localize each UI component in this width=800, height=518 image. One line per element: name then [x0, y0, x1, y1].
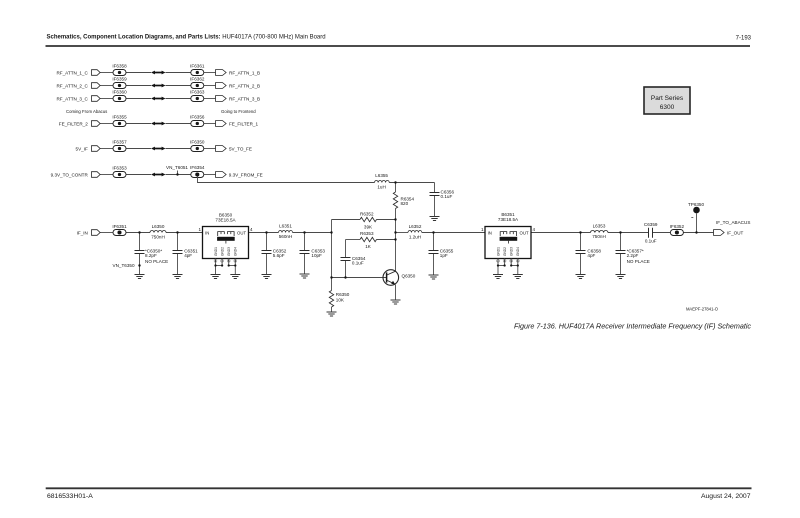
svg-text:Figure 7-136. HUF4017A Receive: Figure 7-136. HUF4017A Receiver Intermed…	[514, 322, 751, 331]
svg-text:MAEPF-27841-O: MAEPF-27841-O	[686, 307, 719, 312]
svg-text:IF6354: IF6354	[190, 165, 205, 170]
svg-text:TP6350: TP6350	[688, 202, 705, 207]
svg-text:1.2uH: 1.2uH	[409, 234, 421, 239]
svg-text:IF6363: IF6363	[190, 90, 205, 95]
svg-text:2.2pF: 2.2pF	[627, 253, 639, 258]
svg-text:L6353: L6353	[593, 224, 606, 229]
svg-text:0.1uF: 0.1uF	[645, 238, 657, 243]
svg-text:73E18.5A: 73E18.5A	[498, 217, 519, 222]
svg-text:RF_ATTN_2_C: RF_ATTN_2_C	[56, 83, 88, 88]
svg-text:0.1uF: 0.1uF	[441, 194, 453, 199]
svg-text:RF_ATTN_2_B: RF_ATTN_2_B	[229, 83, 260, 88]
svg-text:RF_ATTN_1_C: RF_ATTN_1_C	[56, 70, 88, 75]
svg-text:560nH: 560nH	[279, 234, 293, 239]
svg-text:IF6350: IF6350	[190, 140, 205, 145]
svg-text:8.2pF: 8.2pF	[145, 253, 157, 258]
svg-text:6816533H01-A: 6816533H01-A	[47, 493, 93, 500]
svg-text:10K: 10K	[336, 298, 345, 303]
svg-text:1K: 1K	[365, 244, 372, 249]
svg-text:IF6356: IF6356	[190, 115, 205, 120]
svg-text:Q6350: Q6350	[402, 274, 416, 279]
svg-text:Going to Frontend: Going to Frontend	[221, 109, 256, 114]
svg-text:IF6360: IF6360	[112, 90, 127, 95]
svg-text:VN_T6350: VN_T6350	[113, 263, 135, 268]
svg-text:RF_ATTN_3_C: RF_ATTN_3_C	[56, 96, 88, 101]
svg-text:IF_OUT: IF_OUT	[727, 231, 744, 236]
svg-text:R6352: R6352	[360, 211, 374, 216]
svg-text:Schematics, Component Location: Schematics, Component Location Diagrams,…	[47, 34, 326, 40]
svg-text:1pF: 1pF	[440, 253, 448, 258]
svg-text:0.1uF: 0.1uF	[352, 261, 364, 266]
svg-text:IF6359: IF6359	[112, 77, 127, 82]
svg-text:1uH: 1uH	[377, 185, 385, 190]
svg-text:750nH: 750nH	[151, 234, 165, 239]
svg-text:7-193: 7-193	[736, 35, 752, 41]
svg-text:R6350: R6350	[336, 292, 350, 297]
svg-text:Coming From Abacus: Coming From Abacus	[66, 109, 107, 114]
svg-text:9.3V_FROM_FE: 9.3V_FROM_FE	[229, 172, 263, 177]
svg-text:NO PLACE: NO PLACE	[145, 259, 168, 264]
svg-text:IF6357: IF6357	[112, 140, 127, 145]
svg-text:IF6358: IF6358	[112, 64, 127, 69]
svg-text:L6351: L6351	[279, 224, 292, 229]
svg-text:IF_TO_ABACUS: IF_TO_ABACUS	[716, 220, 750, 225]
svg-text:73E18.5A: 73E18.5A	[215, 217, 236, 222]
svg-text:5.6pF: 5.6pF	[273, 253, 285, 258]
svg-text:L6350: L6350	[152, 224, 165, 229]
svg-text:FE_FILTER_2: FE_FILTER_2	[59, 121, 88, 126]
svg-text:5V_TO_FE: 5V_TO_FE	[229, 146, 252, 151]
svg-text:5V_IF: 5V_IF	[76, 146, 88, 151]
svg-text:IF6355: IF6355	[112, 115, 127, 120]
svg-text:RF_ATTN_1_B: RF_ATTN_1_B	[229, 70, 260, 75]
svg-text:L6355: L6355	[375, 173, 388, 178]
svg-text:C6359: C6359	[644, 222, 658, 227]
svg-text:IF6361: IF6361	[190, 64, 205, 69]
svg-text:IF6362: IF6362	[190, 77, 205, 82]
svg-text:IF6351: IF6351	[112, 224, 127, 229]
svg-text:4: 4	[533, 227, 536, 232]
svg-text:VN_T6051: VN_T6051	[166, 165, 188, 170]
svg-text:RF_ATTN_3_B: RF_ATTN_3_B	[229, 96, 260, 101]
svg-text:39K: 39K	[364, 224, 373, 229]
svg-text:9.3V_TO_CONTR: 9.3V_TO_CONTR	[51, 172, 89, 177]
svg-text:10pF: 10pF	[311, 253, 322, 258]
svg-text:6300: 6300	[660, 104, 675, 111]
svg-text:1: 1	[198, 227, 201, 232]
svg-text:R6353: R6353	[360, 231, 374, 236]
svg-text:4pF: 4pF	[587, 253, 595, 258]
svg-text:NO PLACE: NO PLACE	[627, 259, 650, 264]
svg-text:4pF: 4pF	[184, 253, 192, 258]
svg-text:IF6353: IF6353	[112, 166, 127, 171]
svg-text:1: 1	[481, 227, 484, 232]
svg-text:Part Series: Part Series	[651, 95, 684, 102]
svg-text:FE_FILTER_1: FE_FILTER_1	[229, 121, 258, 126]
svg-text:August 24, 2007: August 24, 2007	[701, 493, 751, 500]
svg-text:L6352: L6352	[409, 224, 422, 229]
svg-text:IF_IN: IF_IN	[77, 230, 88, 235]
svg-text:4: 4	[250, 227, 253, 232]
svg-text:750nH: 750nH	[592, 234, 606, 239]
svg-text:IF6352: IF6352	[670, 224, 685, 229]
svg-text:820: 820	[401, 201, 409, 206]
